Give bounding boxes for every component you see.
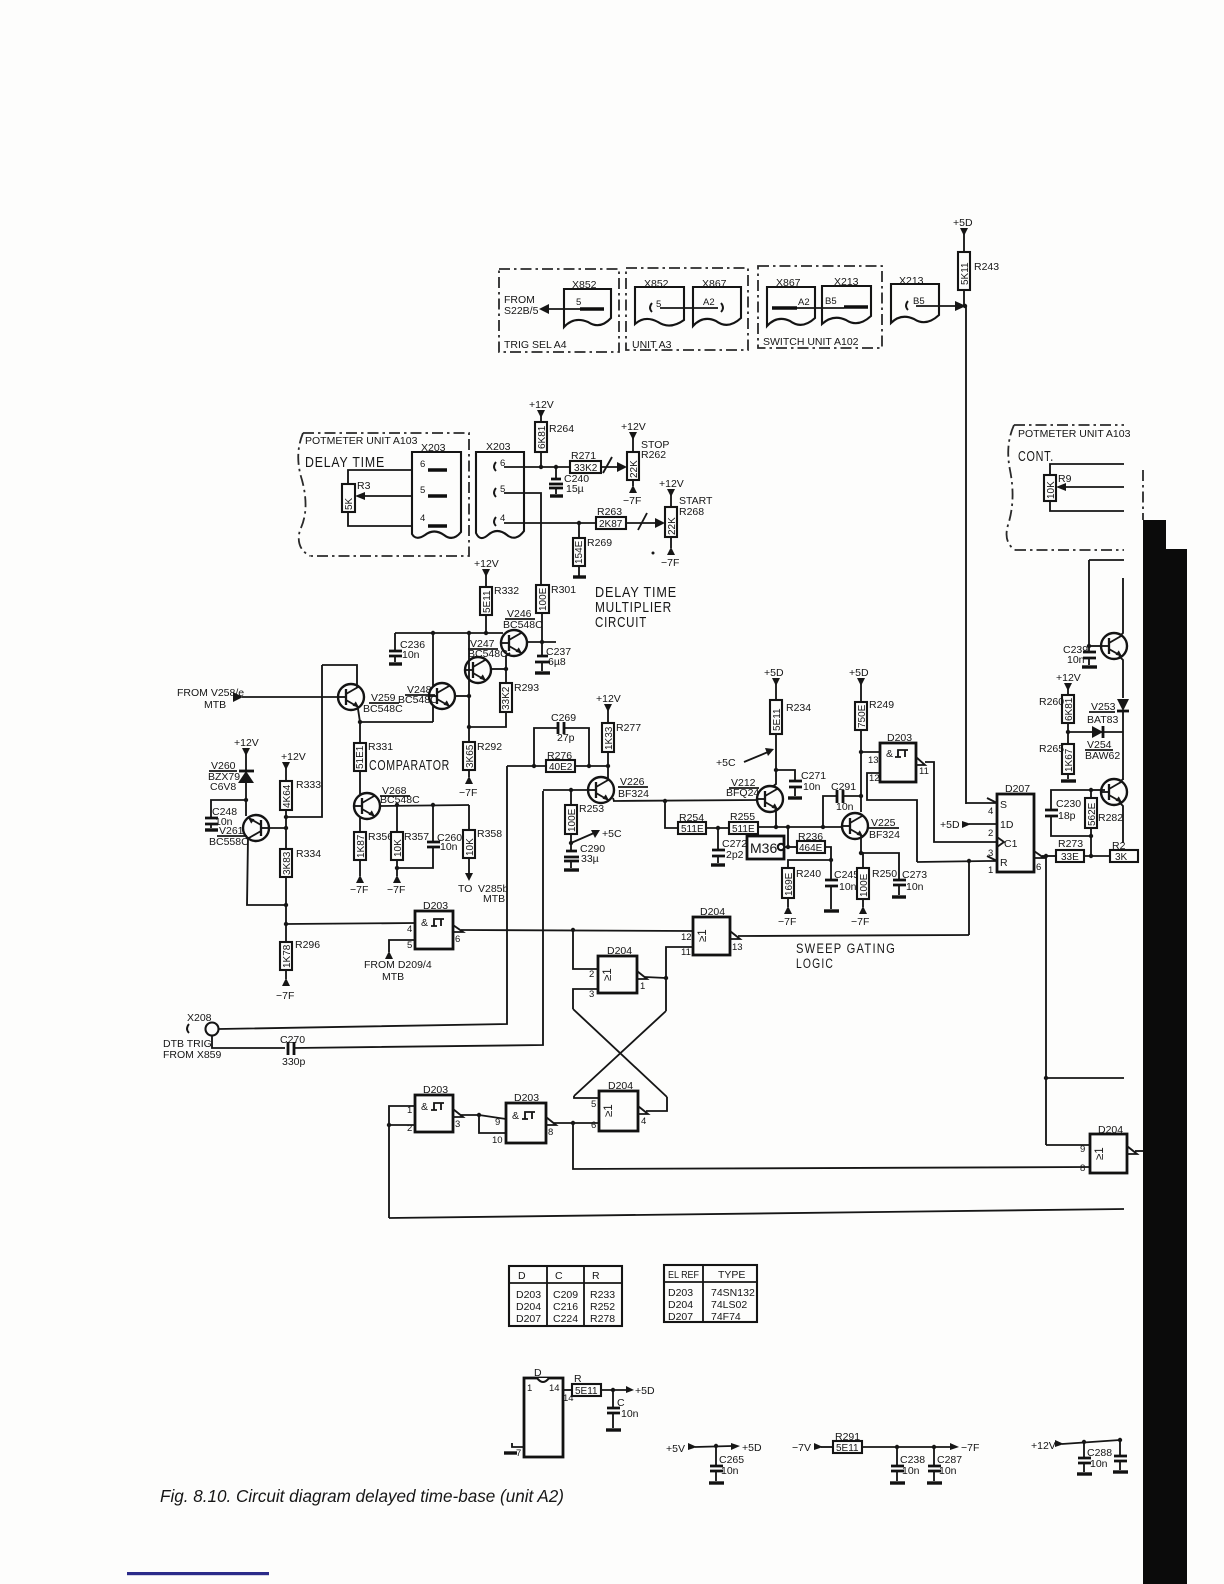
connector X213 (to A2 unit) (891, 284, 939, 323)
capacitor C288 10n (1083, 1442, 1085, 1457)
wire node to pin 9 (479, 1115, 506, 1119)
svg-text:1: 1 (988, 865, 993, 876)
wire X203 pin5 to R301 (504, 493, 541, 585)
pin hook 6 (494, 462, 496, 471)
svg-text:C291: C291 (831, 781, 856, 793)
svg-text:R293: R293 (514, 682, 539, 694)
wire R row (917, 861, 987, 862)
resistor R263 2K87 (596, 517, 626, 529)
svg-text:100E: 100E (859, 873, 870, 897)
black scan bar narrow (1143, 520, 1166, 550)
resistor R273 33E (1056, 850, 1084, 862)
svg-text:13: 13 (732, 942, 743, 953)
resistor R282 562E (1085, 798, 1097, 828)
svg-text:330p: 330p (282, 1056, 306, 1068)
svg-text:−7V: −7V (792, 1442, 811, 1454)
wire X867-X213 (797, 307, 844, 309)
resistor R240 169E (782, 868, 794, 898)
resistor R271 33K2 (570, 461, 601, 473)
connector X203 (unit A2 side) (476, 452, 524, 538)
svg-text:C209: C209 (553, 1289, 578, 1301)
svg-text:6: 6 (591, 1120, 596, 1131)
svg-text:5E11: 5E11 (836, 1443, 859, 1454)
svg-text:750E: 750E (857, 704, 868, 728)
wire pin 12 from R net (867, 773, 917, 862)
wire R9 bottom row (1050, 501, 1124, 511)
svg-text:R234: R234 (786, 702, 811, 714)
svg-text:10K: 10K (465, 838, 476, 856)
wire V248 emitter (432, 705, 434, 722)
capacitor C287 10n (933, 1447, 935, 1465)
svg-text:X213: X213 (899, 275, 924, 287)
svg-text:12: 12 (869, 773, 880, 784)
svg-text:C270: C270 (280, 1034, 305, 1046)
resistor R255 511E (729, 822, 758, 834)
gate D204 (5,6/4) (599, 1091, 638, 1131)
wire R333 to R334 (285, 810, 287, 849)
wire D207-6 down to logic (1045, 856, 1047, 1145)
svg-text:100E: 100E (538, 587, 549, 611)
wire V226 collector to V212 base (613, 798, 614, 801)
svg-text:3K: 3K (1115, 852, 1128, 863)
wire V282 base (1091, 789, 1105, 791)
resistor R234 5E11 (770, 700, 782, 734)
wire D204-13 to D207 R net (738, 935, 969, 936)
output wedge right D204 (1127, 1146, 1137, 1154)
dashed box POTMETER UNIT A103 CONT (1014, 424, 1124, 426)
capacitor C289 (cut) (1119, 1440, 1121, 1455)
svg-text:5E11: 5E11 (772, 708, 783, 731)
wire R268 to -7F (670, 537, 672, 548)
wire pin 13 (861, 751, 880, 753)
svg-text:+12V: +12V (659, 478, 684, 490)
wire V252 emitter down (1119, 656, 1123, 698)
svg-text:R263: R263 (597, 506, 622, 518)
svg-text:D204: D204 (1098, 1124, 1123, 1136)
svg-text:10n: 10n (621, 1408, 639, 1420)
svg-text:10n: 10n (721, 1465, 739, 1477)
svg-text:6µ8: 6µ8 (548, 656, 566, 668)
wire X852-X867 (660, 307, 718, 309)
output 6 wedge (453, 925, 463, 932)
wire node to pin 10 (479, 1115, 506, 1133)
svg-text:−7F: −7F (661, 557, 679, 569)
svg-text:R278: R278 (590, 1313, 615, 1325)
transistor V225 BF324 (842, 813, 868, 839)
wire R273 to R28x (1084, 855, 1110, 857)
wire pin 5 from D209/4 (389, 940, 415, 952)
svg-text:D203: D203 (887, 732, 912, 744)
svg-text:−7F: −7F (276, 990, 294, 1002)
dashed box POTMETER UNIT A103 (delay time) (303, 433, 469, 556)
wire R358 to V285b (468, 858, 470, 874)
output 6 wedge (1034, 851, 1044, 858)
svg-text:5: 5 (591, 1099, 596, 1110)
wire out3 node (461, 1114, 479, 1116)
svg-text:511E: 511E (681, 824, 704, 835)
svg-text:≥1: ≥1 (602, 968, 614, 981)
wire R262 to -7F (632, 480, 634, 486)
blue rule bottom left (127, 1572, 269, 1575)
svg-text:4: 4 (988, 806, 993, 817)
svg-text:10n: 10n (803, 781, 821, 793)
svg-text:D207: D207 (516, 1313, 541, 1325)
svg-text:BC548C: BC548C (503, 619, 543, 631)
capacitor C260 10n (432, 805, 434, 841)
svg-text:+5D: +5D (764, 667, 784, 679)
transistor V226 BF324 (588, 777, 614, 803)
wire R junction down to sweep wire (968, 861, 970, 935)
svg-text:33E: 33E (1061, 852, 1079, 863)
svg-text:FROM X859: FROM X859 (163, 1049, 222, 1061)
svg-text:4K64: 4K64 (282, 784, 293, 808)
svg-text:R: R (592, 1270, 600, 1282)
module M36 (747, 836, 784, 859)
wire V268 collector row (380, 805, 469, 806)
wire R249 down to V225 (860, 730, 862, 812)
svg-text:BFQ24: BFQ24 (726, 787, 759, 799)
svg-text:464E: 464E (799, 843, 823, 854)
wire R331 to V268 (359, 771, 361, 794)
resistor R253 100E (570, 790, 572, 805)
wire R243 to D207 S (long vertical) (964, 290, 966, 804)
svg-text:−7F: −7F (459, 787, 477, 799)
svg-text:33K2: 33K2 (501, 686, 512, 710)
capacitor C270 330p (288, 1042, 294, 1055)
svg-text:5K: 5K (344, 497, 355, 510)
capacitor C272 2p2 (717, 828, 719, 849)
resistor R249 750E (855, 702, 867, 730)
capacitor C290 33u (564, 851, 579, 861)
svg-text:R296: R296 (295, 939, 320, 951)
wire V268 emitter to R356 (359, 818, 361, 832)
svg-text:LOGIC: LOGIC (796, 956, 834, 971)
pin hook 5 (494, 488, 496, 497)
capacitor C240 15u (555, 467, 557, 478)
svg-text:R236: R236 (798, 831, 823, 843)
transistor V261 BC558C (243, 815, 269, 841)
svg-text:10n: 10n (1067, 654, 1085, 666)
connector X213 (switch unit) (822, 286, 871, 324)
svg-text:S: S (1000, 799, 1007, 811)
svg-text:Fig. 8.10. Circuit diagram del: Fig. 8.10. Circuit diagram delayed time-… (160, 1486, 564, 1506)
resistor R250 100E (861, 853, 863, 868)
svg-text:R9: R9 (1058, 473, 1072, 485)
wire R234 to V212 (772, 734, 776, 787)
wire R334 down to gate node (285, 877, 287, 924)
wire out8 node (554, 1122, 599, 1124)
svg-text:R265: R265 (1039, 743, 1064, 755)
svg-text:R333: R333 (296, 779, 321, 791)
svg-text:51E1: 51E1 (355, 745, 366, 769)
svg-text:8: 8 (1080, 1163, 1085, 1174)
transistor V248 BC548C (429, 683, 455, 709)
potentiometer R3 5K (342, 484, 355, 512)
svg-text:≥1: ≥1 (603, 1104, 615, 1117)
svg-text:BC558C: BC558C (209, 836, 249, 848)
svg-text:2p2: 2p2 (726, 849, 744, 861)
wiper wire R9 (1059, 486, 1124, 488)
wire diode node to V282 collector (1122, 732, 1124, 780)
svg-text:14: 14 (549, 1383, 560, 1394)
pin 7 ground (512, 1443, 524, 1447)
svg-text:511E: 511E (732, 824, 755, 835)
resistor R292 3K65 (463, 742, 475, 770)
svg-text:R: R (1000, 857, 1008, 869)
svg-text:74LS02: 74LS02 (711, 1299, 747, 1311)
resistor R236 464E (797, 841, 825, 853)
svg-text:22K: 22K (629, 460, 640, 478)
pin contact 4 (428, 524, 447, 527)
svg-text:−7F: −7F (961, 1442, 979, 1454)
resistor R264 6K81 (535, 422, 547, 452)
svg-text:22K: 22K (667, 517, 678, 535)
svg-text:10n: 10n (902, 1465, 920, 1477)
svg-text:TO: TO (458, 883, 472, 895)
output 3 wedge (453, 1109, 463, 1117)
resistor R269 154E (578, 523, 580, 538)
resistor R301 100E (536, 585, 549, 613)
resistor R260 6K81 (1062, 695, 1074, 723)
wire R277 to V226 (607, 752, 609, 779)
pin hook A2 (721, 303, 723, 312)
connector X852 (trig sel) (564, 289, 611, 327)
wire R292 to -7F (468, 770, 470, 777)
svg-text:S22B/5: S22B/5 (504, 305, 539, 317)
resistor R268 22K START (665, 507, 677, 537)
svg-text:+5C: +5C (602, 828, 622, 840)
wire out 1 to latch node (645, 977, 666, 978)
svg-text:COMPARATOR: COMPARATOR (369, 757, 450, 774)
svg-text:R332: R332 (494, 585, 519, 597)
svg-text:10n: 10n (906, 881, 924, 893)
gate D203 (13,12/11) (880, 743, 916, 782)
svg-text:2: 2 (589, 969, 594, 980)
svg-text:X208: X208 (187, 1012, 212, 1024)
wire X203 pin4 row (504, 522, 656, 524)
dashed unit box UNIT A3 (626, 268, 748, 350)
svg-text:X852: X852 (572, 279, 597, 291)
output 4 wedge (638, 1106, 648, 1114)
svg-text:A2: A2 (798, 297, 810, 308)
svg-text:C: C (555, 1270, 563, 1282)
svg-text:FROM D209/4: FROM D209/4 (364, 959, 432, 971)
svg-text:13: 13 (868, 755, 879, 766)
transistor V247 BC548C (465, 657, 491, 683)
resistor R254 511E (678, 822, 706, 834)
svg-text:R269: R269 (587, 537, 612, 549)
svg-text:BC548C: BC548C (380, 794, 420, 806)
svg-text:R273: R273 (1058, 838, 1083, 850)
svg-text:4: 4 (407, 924, 412, 935)
svg-text:D: D (518, 1270, 526, 1282)
wire V248 base from rail (432, 633, 434, 687)
svg-text:D207: D207 (1005, 783, 1030, 795)
svg-text:R240: R240 (796, 868, 821, 880)
wire node to D203 pin4 (286, 923, 415, 924)
gate D203 (1,2/3) (415, 1095, 453, 1132)
pin hook 5 (650, 303, 652, 312)
svg-text:+12V: +12V (281, 751, 306, 763)
svg-text:TRIG SEL A4: TRIG SEL A4 (504, 339, 567, 351)
potentiometer R9 10K (1044, 475, 1056, 501)
svg-text:X203: X203 (421, 442, 446, 454)
svg-text:R254: R254 (679, 812, 704, 824)
svg-text:+12V: +12V (1031, 1440, 1056, 1452)
svg-text:D204: D204 (608, 1080, 633, 1092)
svg-text:M36: M36 (750, 840, 777, 856)
svg-text:+12V: +12V (474, 558, 499, 570)
svg-text:D203: D203 (516, 1289, 541, 1301)
svg-text:TYPE: TYPE (718, 1269, 745, 1281)
resistor R331 51E1 (359, 722, 361, 743)
svg-text:+12V: +12V (621, 421, 646, 433)
resistor R357 10K (396, 805, 398, 832)
wire R332 to base rail (485, 615, 487, 633)
svg-text:5K11: 5K11 (960, 262, 971, 285)
wire R240 to -7F (787, 898, 789, 907)
wire V261 collector down (247, 838, 286, 905)
svg-text:D204: D204 (668, 1299, 693, 1311)
table D/C/R (509, 1266, 622, 1326)
wire R301 to V246 collector (541, 613, 543, 642)
svg-text:BC548C: BC548C (398, 694, 438, 706)
capacitor C291 10n (823, 796, 836, 827)
wire V259 collector loop (322, 665, 357, 687)
svg-text:R276: R276 (547, 750, 572, 762)
svg-text:A2: A2 (703, 297, 715, 308)
wire R254-R255 (706, 827, 729, 829)
base rail wire (395, 632, 503, 634)
svg-text:10: 10 (492, 1135, 503, 1146)
svg-text:+12V: +12V (234, 737, 259, 749)
+5C arrow at C290 (571, 833, 594, 843)
svg-text:+5D: +5D (635, 1385, 655, 1397)
svg-text:R255: R255 (730, 811, 755, 823)
svg-text:CIRCUIT: CIRCUIT (595, 614, 647, 631)
pin contact A2 (772, 306, 797, 309)
svg-text:6: 6 (455, 934, 460, 945)
diode V253 BAT83 (1117, 699, 1129, 711)
svg-text:C216: C216 (553, 1301, 578, 1313)
output 11 wedge (916, 757, 925, 765)
svg-text:POTMETER UNIT A103: POTMETER UNIT A103 (1018, 428, 1131, 440)
gate D204 (9,8) right (1090, 1134, 1127, 1173)
svg-text:C6V8: C6V8 (210, 781, 236, 793)
svg-text:R243: R243 (974, 261, 999, 273)
svg-text:+5D: +5D (953, 217, 973, 229)
svg-text:+5D: +5D (940, 819, 960, 831)
svg-text:74F74: 74F74 (711, 1311, 741, 1323)
wire pin 5 from cross (574, 1096, 599, 1098)
wire R260 to diode node (1067, 723, 1069, 744)
wire pin 3 from cross (573, 989, 598, 1009)
svg-text:10n: 10n (836, 801, 854, 813)
connector X867 (switch unit) (767, 287, 815, 326)
svg-text:MTB: MTB (382, 971, 404, 983)
svg-text:BAT83: BAT83 (1087, 714, 1118, 726)
wire R236 right to C245 node (825, 847, 831, 860)
capacitor C273 10n (861, 853, 899, 879)
svg-text:10n: 10n (839, 881, 857, 893)
variable slash R271 (603, 457, 612, 473)
svg-text:CONT.: CONT. (1018, 448, 1054, 465)
svg-text:15µ: 15µ (566, 483, 584, 495)
wire out 6 (1042, 855, 1056, 857)
capacitor C269 27p (534, 728, 589, 766)
wire branch to right (cut) (1046, 1077, 1124, 1079)
svg-text:B5: B5 (825, 296, 837, 307)
variable slash R263 (638, 513, 647, 530)
svg-text:R292: R292 (477, 741, 502, 753)
wire R264 to node (540, 452, 542, 467)
svg-text:18p: 18p (1058, 810, 1076, 822)
wire to V259 base (242, 696, 338, 698)
svg-text:D203: D203 (514, 1092, 539, 1104)
svg-text:R268: R268 (679, 506, 704, 518)
wire node down to pin8 feedback (573, 1123, 1090, 1169)
wire from S22B/5 (545, 308, 580, 310)
svg-text:−7F: −7F (623, 495, 641, 507)
black scan bar wide (1143, 549, 1187, 1584)
resistor R334 3K83 (280, 849, 292, 877)
wire R357 to -7F node (396, 860, 398, 876)
wire D203-6 to D204 pin12 (461, 930, 693, 931)
wire R265 to gnd (1067, 774, 1069, 779)
svg-text:D: D (534, 1367, 542, 1379)
wire comparator feedback vertical (286, 665, 322, 817)
pin contact B5 (844, 305, 868, 308)
svg-text:R233: R233 (590, 1289, 615, 1301)
svg-text:R277: R277 (616, 722, 641, 734)
pin contact 6 (428, 468, 447, 471)
wire V226 left to DTB trig line (543, 789, 589, 791)
svg-text:5E11: 5E11 (575, 1386, 598, 1397)
svg-text:R301: R301 (551, 584, 576, 596)
svg-text:10K: 10K (1046, 481, 1057, 499)
capacitor C245 10n (830, 860, 832, 879)
resistor R281 3K (cut) (1110, 850, 1138, 862)
svg-text:1D: 1D (1000, 819, 1014, 831)
wire pin 11 from latch (666, 947, 693, 979)
capacitor C238 10n (896, 1447, 898, 1465)
svg-text:R357: R357 (404, 831, 429, 843)
svg-text:≥1: ≥1 (697, 929, 709, 942)
svg-text:+12V: +12V (1056, 672, 1081, 684)
wire V252 collector up (1120, 578, 1123, 636)
wire pin 2 from sweep net (573, 930, 598, 969)
transistor V212 BFQ24 (757, 786, 783, 812)
wire V246 emitter to V247 node (506, 653, 510, 669)
wire V212 emitter down (775, 809, 776, 827)
svg-text:+5D: +5D (742, 1442, 762, 1454)
node zener/C248/V261 (244, 798, 248, 802)
svg-text:4: 4 (641, 1116, 646, 1127)
wire R296 to -7F (285, 970, 287, 979)
svg-text:2K87: 2K87 (599, 519, 623, 530)
output 1 wedge (637, 971, 647, 979)
transistor V282 (lower right) (1101, 779, 1127, 805)
svg-text:R282: R282 (1098, 812, 1123, 824)
svg-text:10n: 10n (440, 841, 458, 853)
wire V282 collector (1120, 779, 1123, 782)
dashed unit box TRIG SEL A4 (499, 269, 619, 352)
svg-text:40E2: 40E2 (549, 762, 573, 773)
svg-text:R253: R253 (579, 803, 604, 815)
svg-text:D204: D204 (700, 906, 725, 918)
wire V261 base to divider (269, 827, 286, 829)
resistor R276 40E2 (546, 760, 575, 772)
